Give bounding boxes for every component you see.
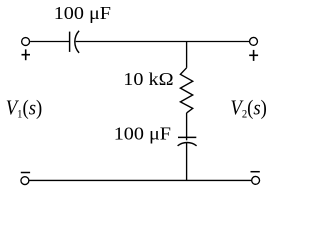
plus sign TR xyxy=(249,50,258,61)
plus sign TL xyxy=(22,49,31,60)
svg-text:100 μF: 100 μF xyxy=(114,124,171,144)
svg-text:10 kΩ: 10 kΩ xyxy=(123,70,173,90)
terminal TR xyxy=(250,37,258,45)
bottom rail wire xyxy=(29,179,251,181)
minus sign BL xyxy=(21,172,30,174)
capacitor C1 straight plate xyxy=(69,32,71,52)
capacitor C1 curved plate xyxy=(75,31,79,53)
minus sign BR xyxy=(251,171,260,173)
node V2(s) xyxy=(230,96,266,120)
terminal BR xyxy=(252,176,260,184)
wire C2 to bottom rail xyxy=(186,143,188,181)
terminal TL xyxy=(22,38,30,46)
label C1 value 100 uF xyxy=(54,4,111,24)
capacitor C2 curved plate xyxy=(178,142,197,145)
label R1 value 10 kOhm xyxy=(123,70,173,90)
node V1(s) xyxy=(6,96,42,120)
wire resistor to C2 xyxy=(186,113,188,140)
wire top-right xyxy=(76,41,249,43)
svg-text:100 μF: 100 μF xyxy=(54,4,111,24)
capacitor C2 straight plate xyxy=(178,136,196,138)
wire branch down xyxy=(186,42,188,68)
resistor R1 zigzag xyxy=(180,68,192,113)
svg-text:V1(s): V1(s) xyxy=(6,96,42,120)
svg-text:V2(s): V2(s) xyxy=(230,96,266,120)
label C2 value 100 uF xyxy=(114,124,171,144)
wire top-left xyxy=(30,41,69,43)
terminal BL xyxy=(21,177,29,185)
